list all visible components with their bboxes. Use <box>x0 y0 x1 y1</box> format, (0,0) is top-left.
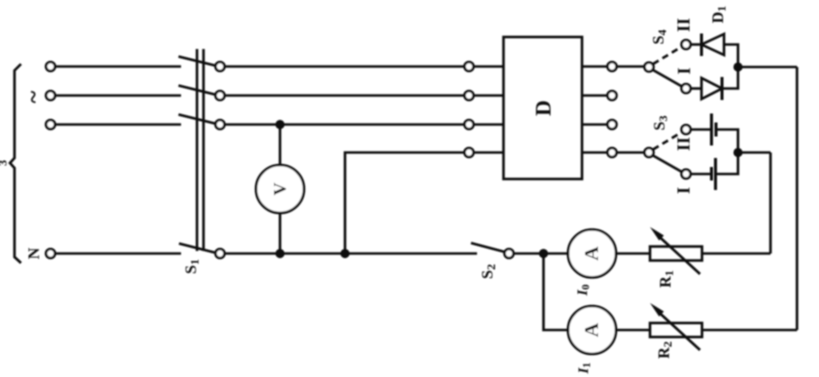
wire S2 to node <box>514 252 569 255</box>
wire N to D input 4 <box>345 153 465 254</box>
D input terminal 4 <box>465 148 474 157</box>
svg-text:S4: S4 <box>651 30 670 45</box>
wire D out4 to S3 <box>617 151 645 154</box>
wire L2 mid <box>225 94 465 97</box>
wire diode D1a out <box>724 45 738 68</box>
wire cells junction to inner rail <box>738 151 771 154</box>
svg-text:S2: S2 <box>480 264 499 279</box>
resistor R1 <box>650 227 702 274</box>
cell C-I (long plate right) <box>712 158 716 190</box>
contact pole1 <box>216 62 225 71</box>
wire cell I out <box>716 153 739 175</box>
D output terminal 3 <box>608 120 617 129</box>
wire R1 to inner rail <box>702 252 771 255</box>
svg-text:R1: R1 <box>658 270 677 288</box>
wire cell II out <box>716 130 738 153</box>
cell C-II (long plate left) <box>712 114 717 146</box>
voltmeter V <box>256 165 304 213</box>
svg-text:I: I <box>674 67 694 74</box>
node cells junction <box>733 148 742 157</box>
terminal L3 <box>46 120 55 129</box>
blade to II (dashed) <box>653 132 682 150</box>
wire N left <box>55 252 181 255</box>
linkage bar <box>196 49 199 251</box>
blade to I <box>653 70 682 87</box>
svg-text:N: N <box>26 247 43 259</box>
contact I <box>682 84 691 93</box>
wire D in stub 1 <box>474 65 504 68</box>
blade <box>471 243 505 252</box>
contact pole2 <box>216 91 225 100</box>
terminal N <box>46 249 55 258</box>
supply brace <box>10 64 21 263</box>
wire D out stub 3 <box>582 123 608 126</box>
wire D out stub 2 <box>582 94 608 97</box>
wire voltmeter bottom <box>279 213 282 254</box>
wire D out stub 4 <box>582 151 608 154</box>
device D <box>504 37 583 179</box>
ammeter A (I0) <box>568 230 616 278</box>
svg-text:I: I <box>674 187 694 194</box>
contact II <box>682 40 691 49</box>
wire D in stub 4 <box>474 151 504 154</box>
wire I1 branch down <box>544 254 569 331</box>
switch S3 <box>645 125 691 179</box>
wire outer rail vertical <box>796 67 799 330</box>
wire L2 left <box>55 94 181 97</box>
wire A2 to R2 <box>616 329 650 332</box>
svg-text:S1: S1 <box>183 259 202 274</box>
contact <box>505 249 514 258</box>
wire D out1 to S4 <box>617 65 645 68</box>
svg-text:3: 3 <box>0 160 10 166</box>
blade pole3 <box>179 115 216 124</box>
svg-text:D: D <box>531 100 556 116</box>
svg-text:A: A <box>581 322 603 337</box>
wire L1 mid <box>225 65 465 68</box>
wire L3 mid <box>225 123 465 126</box>
wire diode junction to right rail <box>738 66 797 69</box>
svg-text:D1: D1 <box>710 6 729 24</box>
wire inner rail vertical <box>769 153 772 254</box>
node diodes junction <box>733 62 742 71</box>
diode D1b (cathode right) <box>702 77 723 100</box>
diode D1a (cathode left) <box>702 34 725 57</box>
wire L1 left <box>55 65 181 68</box>
svg-text:II: II <box>674 137 694 151</box>
wire N mid <box>225 252 478 255</box>
wire S3 I to cell <box>691 173 712 176</box>
contact pole3 <box>216 120 225 129</box>
svg-text:S3: S3 <box>652 116 671 131</box>
D input terminal 2 <box>465 91 474 100</box>
contact I <box>682 170 691 179</box>
blade pole1 <box>179 57 216 66</box>
switch S1 <box>179 49 225 258</box>
wire D in stub 2 <box>474 94 504 97</box>
D output terminal 2 <box>608 91 617 100</box>
ammeter A (I1) <box>568 306 616 354</box>
wire diode D1b out <box>722 67 738 89</box>
switch S4 <box>645 40 691 93</box>
svg-text:~: ~ <box>21 90 47 103</box>
D output terminal 4 <box>608 148 617 157</box>
node N-voltmeter <box>275 249 284 258</box>
wire S4 II to diode <box>691 43 702 46</box>
common contact <box>645 148 654 157</box>
terminal L2 <box>46 91 55 100</box>
svg-text:I0: I0 <box>575 284 592 297</box>
contact poleN <box>216 249 225 258</box>
svg-text:V: V <box>270 183 290 196</box>
wire D out stub 1 <box>582 65 608 68</box>
wire S3 II to cell <box>691 128 712 131</box>
blade pole2 <box>179 86 216 95</box>
blade to I <box>653 156 682 173</box>
wire D in stub 3 <box>474 123 504 126</box>
terminal L1 <box>46 62 55 71</box>
D input terminal 1 <box>465 62 474 71</box>
D output terminal 1 <box>608 62 617 71</box>
node N-D4 <box>340 249 349 258</box>
wire voltmeter top <box>279 125 282 166</box>
switch S2 <box>471 243 514 258</box>
D input terminal 3 <box>465 120 474 129</box>
svg-text:R2: R2 <box>656 341 675 359</box>
wire R2 to outer rail <box>702 329 797 332</box>
svg-text:II: II <box>674 18 694 32</box>
wire S4 I to diode <box>691 87 702 90</box>
resistor R2 <box>650 303 702 350</box>
node ammeters split <box>539 249 548 258</box>
svg-text:A: A <box>581 246 603 261</box>
blade poleN <box>179 244 215 253</box>
svg-text:I1: I1 <box>576 362 593 374</box>
wire L3 left <box>55 123 181 126</box>
common contact <box>645 63 654 72</box>
wire A1 to R1 <box>616 252 650 255</box>
contact II <box>682 125 691 134</box>
node L3-voltmeter <box>275 120 284 129</box>
blade to II (dashed) <box>653 47 682 65</box>
